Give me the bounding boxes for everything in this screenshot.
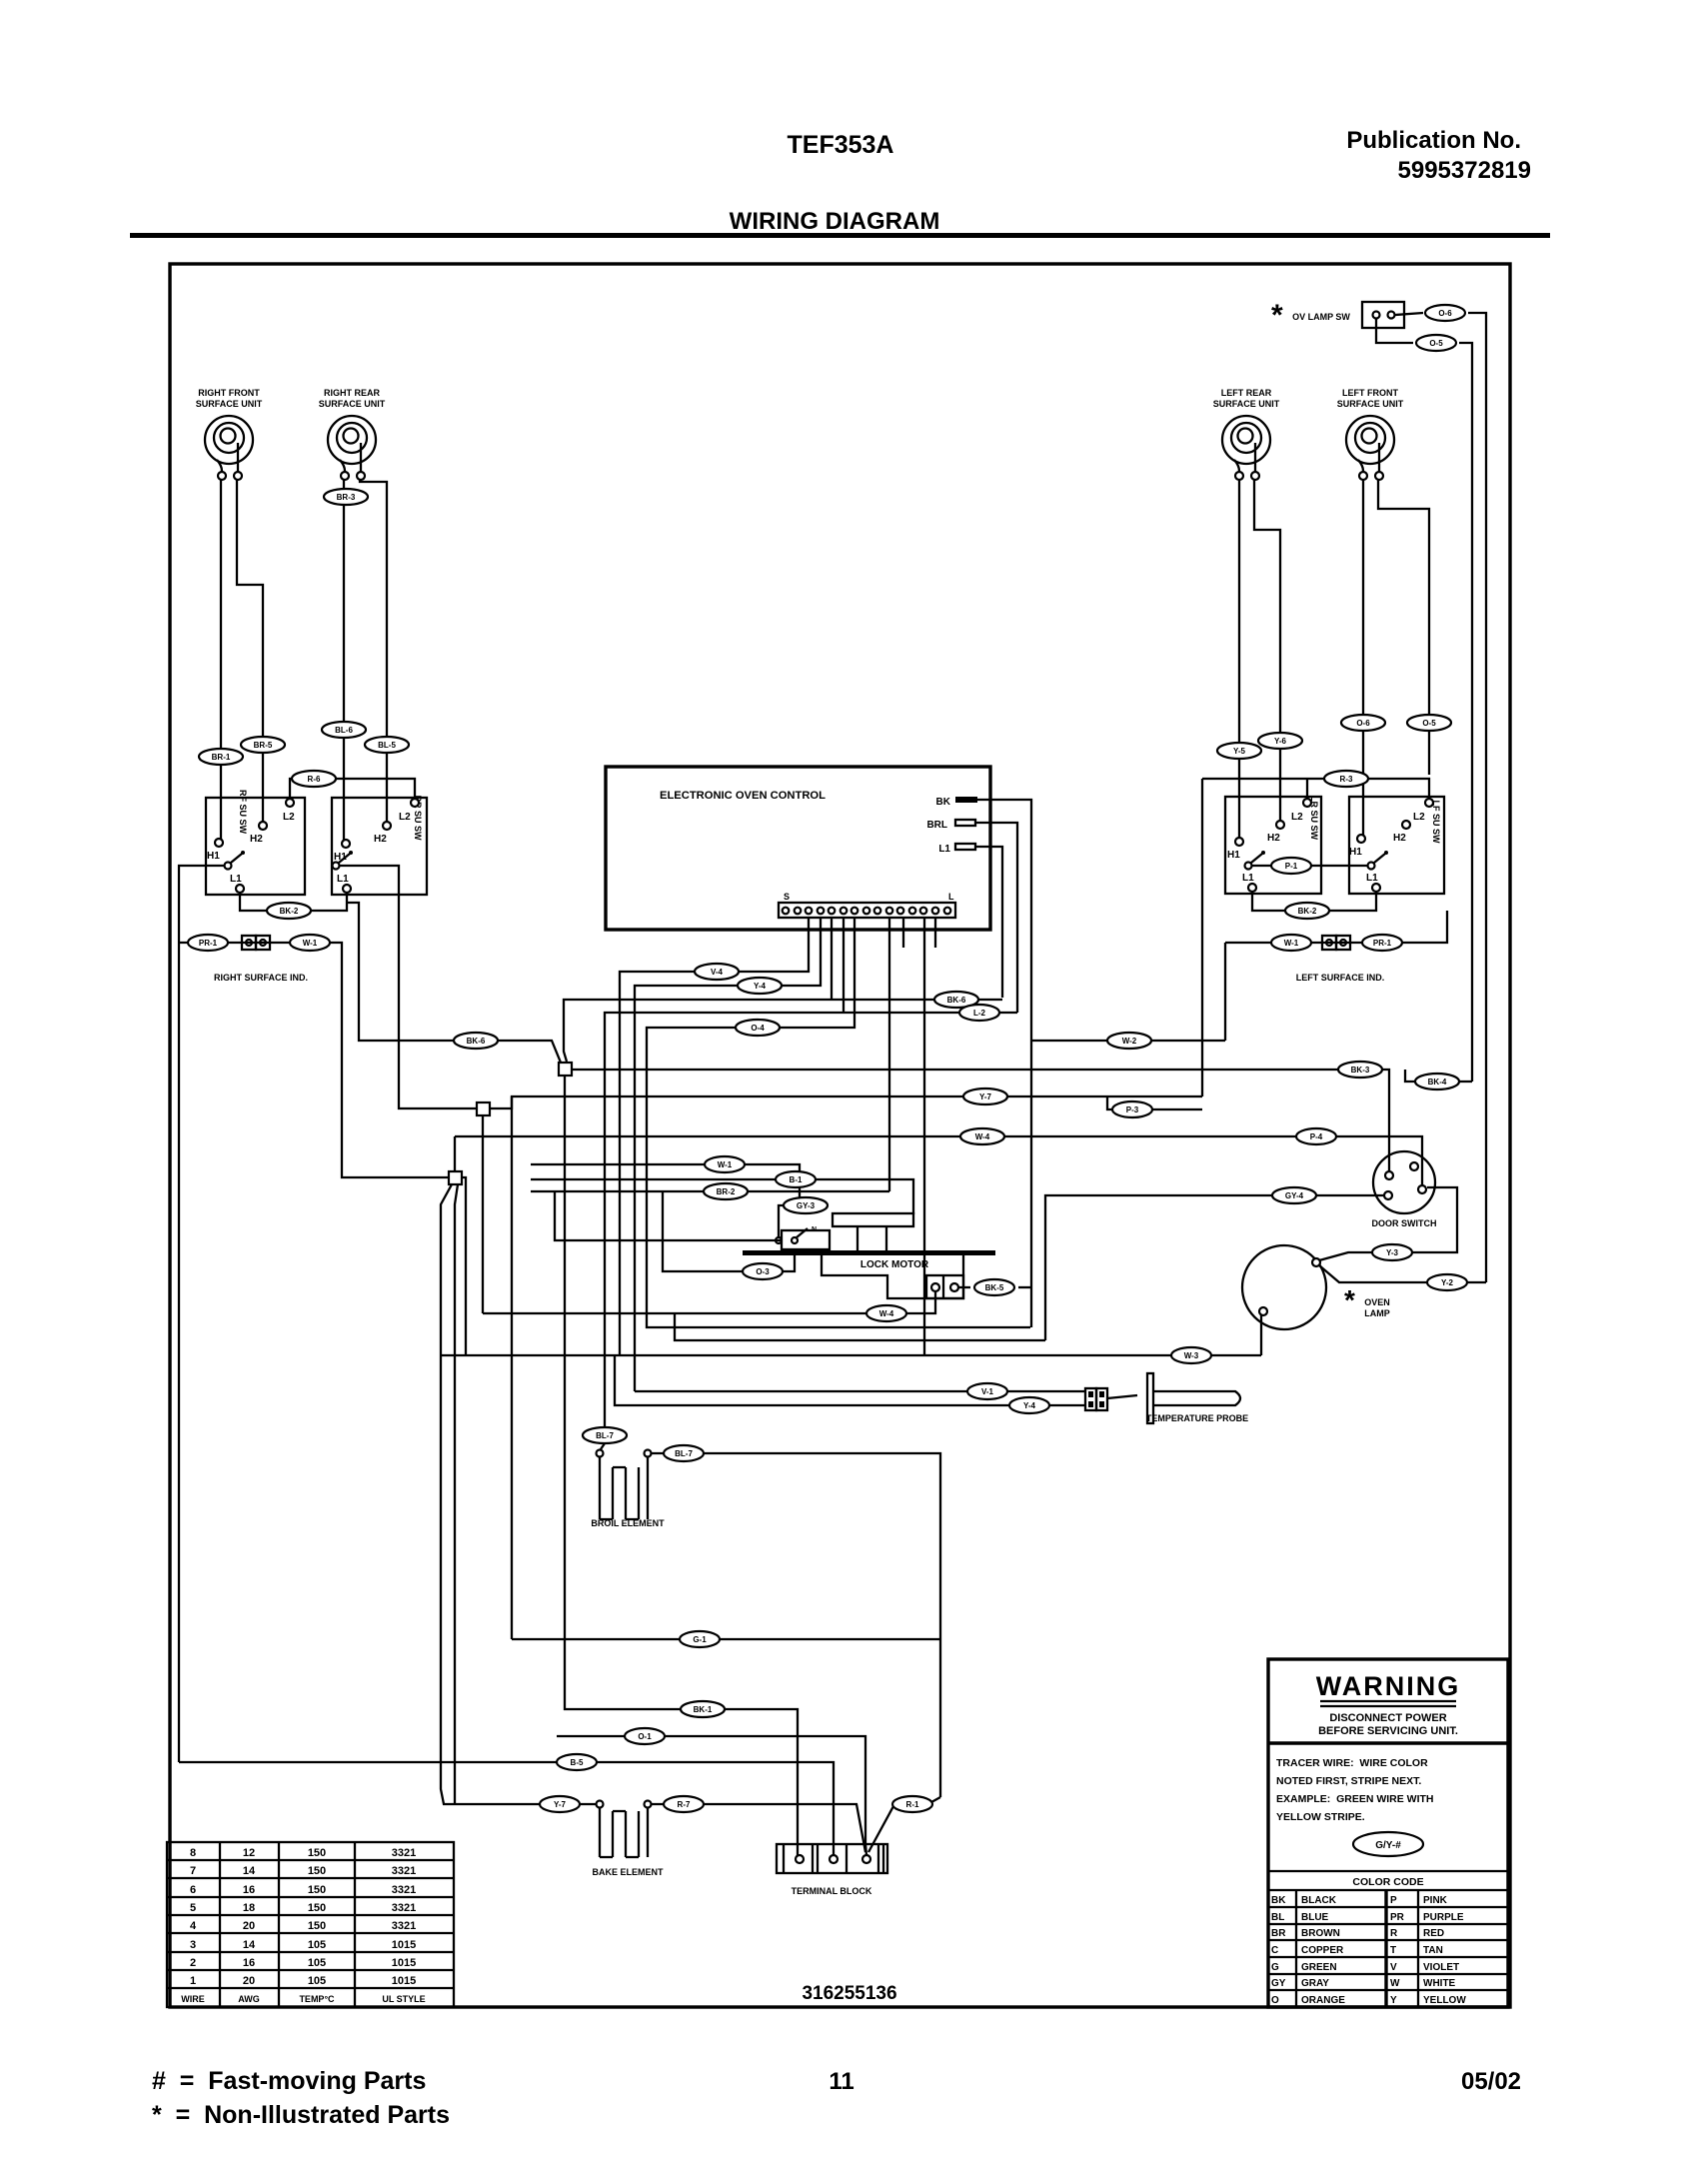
svg-text:Y-7: Y-7 [554,1800,567,1809]
svg-text:W-2: W-2 [1122,1037,1137,1046]
wire LR pivot to LF pivot [1252,865,1368,867]
connector V-4 [695,964,739,980]
surface unit LEFT FRONT (coil heater symbol) [1337,388,1404,480]
svg-text:P-3: P-3 [1126,1105,1139,1114]
wire left L1 link pair [1252,892,1376,911]
svg-text:GY-3: GY-3 [797,1201,816,1210]
switch box LR SU SW [1225,796,1321,894]
color code table [1268,1890,1508,2007]
EOC terminal L1 (spade) [938,844,975,855]
wire EOC BK lead to right column [977,800,1031,1327]
svg-text:316255136: 316255136 [802,1983,896,2004]
svg-text:105: 105 [308,1939,326,1951]
svg-text:BL-6: BL-6 [335,726,353,735]
svg-text:Publication No.: Publication No. [1346,127,1521,154]
svg-text:G-1: G-1 [693,1635,707,1644]
wire gauge table [167,1842,454,2007]
svg-text:BLACK: BLACK [1301,1895,1337,1906]
svg-text:1: 1 [190,1975,196,1987]
svg-text:12: 12 [243,1847,255,1859]
connector W-4b [866,1305,906,1321]
svg-text:W-3: W-3 [1184,1351,1199,1360]
svg-text:OVEN: OVEN [1364,1297,1390,1307]
connector BK-2 [267,903,311,919]
svg-text:RIGHT REAR: RIGHT REAR [324,388,381,398]
svg-text:BL-7: BL-7 [596,1431,614,1440]
EOC terminal BRL (spade) [926,820,975,831]
svg-text:W-1: W-1 [1284,939,1299,948]
svg-text:V-1: V-1 [981,1387,994,1396]
svg-text:L2: L2 [399,812,411,823]
connector BK-1 [681,1701,725,1717]
connector BL-7 [583,1427,627,1443]
svg-text:3321: 3321 [392,1902,416,1914]
svg-text:O-1: O-1 [638,1732,652,1741]
wire R-3 row drop to BK row [1201,779,1203,1096]
svg-text:RIGHT FRONT: RIGHT FRONT [198,388,260,398]
wire strip terminal drop 1 to V-4 row [620,918,809,1355]
connector B-5 [557,1754,597,1770]
svg-text:L1: L1 [1242,873,1254,884]
connector O-5b [1407,715,1451,731]
svg-text:GRAY: GRAY [1301,1978,1329,1989]
temperature probe [1085,1373,1248,1423]
svg-text:BR-3: BR-3 [337,493,356,502]
switch box RR SU SW [332,796,427,896]
svg-text:3321: 3321 [392,1865,416,1877]
svg-text:H2: H2 [1267,833,1280,844]
connector BR-1 [199,749,243,765]
svg-text:3321: 3321 [392,1847,416,1859]
svg-text:8: 8 [190,1847,196,1859]
wire indicator row drop to Y-7 row [1224,943,1226,1041]
wire RR unit H1 lead [343,480,345,840]
svg-text:BK-4: BK-4 [1428,1078,1447,1087]
svg-text:BR-5: BR-5 [254,741,273,750]
lock motor slide bar [743,1250,995,1255]
wire B-1 row to lock motor flag [531,1179,913,1214]
wire lamp sw right pin to connector [1395,313,1423,315]
connector P-3 [1112,1101,1152,1117]
svg-text:R: R [1390,1928,1398,1939]
connector Y-3 [1372,1244,1412,1260]
svg-text:1015: 1015 [392,1957,416,1969]
svg-text:LEFT SURFACE IND.: LEFT SURFACE IND. [1296,973,1385,983]
svg-text:C: C [1271,1945,1278,1956]
svg-text:R-1: R-1 [906,1800,919,1809]
svg-text:BL-5: BL-5 [378,741,396,750]
svg-text:150: 150 [308,1902,326,1914]
svg-text:BL: BL [1271,1912,1284,1923]
svg-text:BK-1: BK-1 [694,1705,713,1714]
lock motor terminal box [926,1275,963,1298]
wire J2 drop to lower route and GY-4 row to door switch left pin [483,1115,1384,1340]
connector Y-4b [1009,1397,1049,1413]
svg-text:W-1: W-1 [718,1160,733,1169]
connector BL-6 [322,722,366,738]
svg-text:1015: 1015 [392,1939,416,1951]
svg-text:BK-6: BK-6 [467,1037,486,1046]
terminal block [777,1844,887,1896]
wire strip stub 8 [902,918,904,948]
svg-text:L1: L1 [938,844,950,855]
svg-text:WHITE: WHITE [1423,1978,1456,1989]
connector BK-4 [1415,1074,1459,1090]
svg-text:LEFT REAR: LEFT REAR [1221,388,1272,398]
wire door switch right pin to oven lamp [1319,1187,1457,1260]
svg-text:O-4: O-4 [751,1024,765,1033]
connector O-6 [1425,305,1465,321]
svg-text:PURPLE: PURPLE [1423,1912,1464,1923]
wire RR switch L1 drop to BK junction line [347,903,561,1063]
wire oven lamp lower pin to long W row [1260,1315,1262,1355]
svg-text:V: V [1390,1962,1397,1973]
wire J3 funnel left leg to bake row [441,1184,455,1804]
svg-text:BK-2: BK-2 [280,907,299,916]
connector W-2 [1107,1033,1151,1049]
connector BL-5 [365,737,409,753]
svg-text:Y-4: Y-4 [754,982,767,991]
wire G-1 feeder drop [511,1096,513,1639]
wire BK-5 to right drop [1018,1286,1031,1288]
svg-text:BK: BK [936,797,951,808]
svg-text:TEMP°C: TEMP°C [299,1994,335,2004]
svg-text:L2: L2 [283,812,295,823]
svg-text:BEFORE SERVICING UNIT.: BEFORE SERVICING UNIT. [1318,1725,1458,1737]
svg-text:Y-3: Y-3 [1386,1248,1399,1257]
svg-text:150: 150 [308,1847,326,1859]
wire jumper R-3 row [1202,779,1429,799]
svg-text:H2: H2 [250,834,263,845]
connector BK-5 [974,1279,1014,1295]
svg-text:BK: BK [1271,1895,1286,1906]
lock switch [782,1230,830,1249]
main border frame [170,264,1510,2007]
svg-text:150: 150 [308,1920,326,1932]
svg-text:3321: 3321 [392,1884,416,1896]
wire RR switch pivot to J2 [339,866,477,1108]
connector O-5 [1416,335,1456,351]
svg-text:S: S [784,892,790,902]
connector BK-6b [934,992,978,1008]
svg-text:BROWN: BROWN [1301,1928,1340,1939]
wire J1 drop to BK-1 row to terminal block pin 1 [565,1076,798,1855]
connector B-1 [776,1171,816,1187]
svg-text:L: L [948,892,954,902]
wire LR L2 stub to R-3 row [1306,779,1308,799]
wire BK row to R-3 drop [1031,1040,1225,1042]
wire lock switch feed row [555,1191,782,1240]
wire LR unit H1 lead [1238,480,1240,838]
wire lock motor terminal 1 loop [483,1291,1045,1340]
wire RF unit H1 lead [220,480,222,839]
svg-text:105: 105 [308,1975,326,1987]
connector R-6 [292,771,336,787]
wire connector to second right drop [1459,343,1472,1082]
connector O-1 [625,1728,665,1744]
wire L1 to L1 link right pair [240,893,347,911]
connector W-4 [960,1128,1004,1144]
svg-text:BR: BR [1271,1928,1286,1939]
svg-text:BK-6: BK-6 [947,996,966,1005]
connector P-4 [1296,1128,1336,1144]
svg-text:YELLOW STRIPE.: YELLOW STRIPE. [1276,1811,1365,1823]
switch box RF SU SW [206,790,305,895]
svg-text:H2: H2 [1393,833,1406,844]
svg-text:G: G [1271,1962,1279,1973]
EOC terminal strip with 15 screw terminals [779,892,955,918]
svg-text:SURFACE UNIT: SURFACE UNIT [1213,399,1280,409]
svg-text:TEMPERATURE PROBE: TEMPERATURE PROBE [1146,1413,1248,1423]
svg-text:H1: H1 [1227,850,1240,861]
wire strip terminal drop 5 to O-4 row [647,918,1030,1327]
EOC terminal BK (spade) [936,797,977,808]
svg-text:BR-1: BR-1 [212,753,231,762]
svg-text:*: * [1344,1284,1355,1315]
connector L-2 [959,1005,999,1021]
svg-text:O-6: O-6 [1438,309,1452,318]
svg-text:G/Y-#: G/Y-# [1375,1840,1401,1851]
svg-text:B-1: B-1 [790,1175,803,1184]
connector GY-3 [784,1197,828,1213]
door switch [1372,1151,1437,1228]
wire RF unit H2 lead [237,480,263,822]
svg-text:O-6: O-6 [1356,719,1370,728]
wire lock motor terminal 2 to BK-5 [958,1286,970,1288]
svg-text:BK-3: BK-3 [1351,1066,1370,1075]
junction node J2 [477,1102,490,1115]
connector O-4 [736,1020,780,1036]
broil element [591,1450,665,1529]
svg-text:4: 4 [190,1920,197,1932]
wire G-1 row [512,1638,940,1640]
wire jumper R-6 between L2 terminals [290,779,415,799]
svg-text:Y-5: Y-5 [1233,747,1246,756]
connector GY-4 [1272,1187,1316,1203]
junction node J3 [449,1171,462,1184]
svg-text:ORANGE: ORANGE [1301,1995,1345,2006]
svg-text:TRACER WIRE: WIRE COLOR: TRACER WIRE: WIRE COLOR [1276,1757,1428,1769]
connector BK-2b [1285,903,1329,919]
svg-text:16: 16 [243,1884,255,1896]
svg-text:PR-1: PR-1 [1373,939,1392,948]
connector BR-2 [704,1183,748,1199]
connector Y-5 [1217,743,1261,759]
wire temperature probe line 2 [615,1355,1085,1405]
svg-text:OV LAMP SW: OV LAMP SW [1292,312,1350,322]
wire J1 output row to door switch top pin [572,1070,1389,1171]
svg-text:105: 105 [308,1957,326,1969]
svg-text:COPPER: COPPER [1301,1945,1344,1956]
svg-text:B-5: B-5 [571,1758,584,1767]
svg-text:W-1: W-1 [303,939,318,948]
connector Y-6 [1258,733,1302,749]
svg-text:R-3: R-3 [1340,775,1353,784]
svg-text:DISCONNECT POWER: DISCONNECT POWER [1329,1712,1446,1724]
wire broil element right lead long drop [652,1453,940,1797]
wire B-5 row from left border to terminal block pin 2 [179,1762,834,1855]
svg-text:TAN: TAN [1423,1945,1443,1956]
svg-text:O-5: O-5 [1429,339,1443,348]
svg-text:Y: Y [1390,1995,1397,2006]
svg-text:* = Non-Illustrated Parts: * = Non-Illustrated Parts [152,2101,450,2129]
svg-text:AWG: AWG [238,1994,260,2004]
wire strip terminal drop 2 to Y-4 row [635,918,821,1391]
svg-text:H1: H1 [1349,847,1362,858]
svg-text:NOTED FIRST, STRIPE NEXT.: NOTED FIRST, STRIPE NEXT. [1276,1775,1421,1787]
svg-text:P-1: P-1 [1285,862,1298,871]
connector BL-7b [664,1445,704,1461]
switch box LF SU SW [1349,797,1444,894]
wire LR unit H2 lead [1254,480,1280,821]
surface unit RIGHT FRONT (coil heater symbol) [196,388,263,480]
svg-text:R-7: R-7 [678,1800,691,1809]
warning box [1268,1659,1508,2007]
svg-text:L2: L2 [1413,812,1425,823]
connector Y-7b [540,1796,580,1812]
svg-text:R-6: R-6 [308,775,321,784]
connector W-3 [1171,1347,1211,1363]
svg-text:Y-2: Y-2 [1441,1278,1454,1287]
svg-text:SURFACE UNIT: SURFACE UNIT [319,399,386,409]
svg-text:O-3: O-3 [756,1267,770,1276]
connector R-7 [664,1796,704,1812]
svg-text:TERMINAL BLOCK: TERMINAL BLOCK [792,1886,872,1896]
wire RR unit H2 lead [360,480,387,822]
svg-text:14: 14 [243,1865,256,1877]
indicator lamp RIGHT SURFACE IND [214,936,308,983]
svg-text:EXAMPLE: GREEN WIRE WITH: EXAMPLE: GREEN WIRE WITH [1276,1793,1434,1805]
svg-text:*: * [1271,299,1283,332]
wire bake element right lead row [652,1804,865,1852]
svg-text:Y-4: Y-4 [1023,1401,1036,1410]
lock motor body [822,1255,963,1298]
svg-text:1015: 1015 [392,1975,416,1987]
wire right surface indicator row [179,943,449,1177]
connector BR-5 [241,737,285,753]
svg-text:20: 20 [243,1920,255,1932]
svg-text:RIGHT SURFACE IND.: RIGHT SURFACE IND. [214,973,308,983]
svg-text:COLOR CODE: COLOR CODE [1352,1876,1423,1888]
wire P-4 row J3 to door switch right pin [455,1136,1422,1185]
svg-text:RED: RED [1423,1928,1444,1939]
svg-text:PINK: PINK [1423,1895,1448,1906]
svg-text:18: 18 [243,1902,255,1914]
svg-text:L2: L2 [1291,812,1303,823]
svg-text:6: 6 [190,1884,196,1896]
wire EOC BRL lead down [975,823,1017,1013]
wire EOC L1 lead down [975,847,1002,998]
surface unit LEFT REAR (coil heater symbol) [1213,388,1280,480]
svg-text:H1: H1 [207,851,220,862]
svg-text:16: 16 [243,1957,255,1969]
svg-text:UL STYLE: UL STYLE [382,1994,425,2004]
connector R-3 [1324,771,1368,787]
svg-text:11: 11 [829,2068,854,2095]
wire LF unit H1 lead [1362,480,1364,835]
svg-text:W-4: W-4 [975,1132,990,1141]
connector BK-6 [454,1033,498,1049]
svg-text:3: 3 [190,1939,196,1951]
svg-text:L1: L1 [230,874,242,885]
svg-text:BLUE: BLUE [1301,1912,1329,1923]
wire W-1 row to lock switch [531,1164,828,1237]
svg-text:BK-2: BK-2 [1298,907,1317,916]
connector R-1 [868,1797,940,1852]
svg-text:YELLOW: YELLOW [1423,1995,1466,2006]
svg-text:5995372819: 5995372819 [1398,157,1531,184]
svg-text:O: O [1271,1995,1279,2006]
wire Y-7 long row [491,1096,1202,1108]
svg-text:150: 150 [308,1884,326,1896]
surface unit RIGHT REAR (coil heater symbol) [319,388,386,480]
connector example G/Y-# [1353,1832,1423,1856]
wire strip stub 9 [934,918,936,948]
svg-text:GY-4: GY-4 [1285,1191,1304,1200]
svg-text:DOOR SWITCH: DOOR SWITCH [1372,1218,1437,1228]
wire BK-4 branch to right column [1405,1070,1472,1082]
connector Y-2 [1427,1274,1467,1290]
svg-text:3321: 3321 [392,1920,416,1932]
oven lamp (non-illustrated) [1242,1245,1390,1329]
wire RF switch pivot to left border drop [179,866,225,1762]
svg-text:W: W [1390,1978,1400,1989]
svg-text:LF SU SW: LF SU SW [1431,801,1441,845]
connector PR-1 [188,935,228,951]
svg-text:Y-6: Y-6 [1274,737,1287,746]
svg-text:PR-1: PR-1 [199,939,218,948]
svg-text:RF SU SW: RF SU SW [238,790,248,835]
svg-text:05/02: 05/02 [1461,2068,1521,2095]
svg-text:BR-2: BR-2 [717,1187,736,1196]
wire strip terminal drop 3 to BK-6 row [564,918,1002,1062]
svg-text:P: P [1390,1895,1397,1906]
svg-text:ELECTRONIC OVEN CONTROL: ELECTRONIC OVEN CONTROL [660,790,826,802]
connector BK-3 [1338,1062,1382,1078]
svg-text:PR: PR [1390,1912,1405,1923]
svg-text:L1: L1 [337,874,349,885]
svg-text:Y-7: Y-7 [979,1092,992,1101]
svg-text:SURFACE UNIT: SURFACE UNIT [196,399,263,409]
svg-text:5: 5 [190,1902,196,1914]
wire strip terminal drop 6 [888,918,890,1191]
connector O-3 [743,1263,783,1279]
svg-text:P-4: P-4 [1310,1132,1323,1141]
svg-text:TEF353A: TEF353A [788,131,894,159]
svg-text:GY: GY [1271,1978,1286,1989]
wire temperature probe line 1 [635,1390,1085,1392]
connector BR-3 [324,489,368,505]
lock motor assembly [743,1213,995,1298]
svg-text:LOCK MOTOR: LOCK MOTOR [860,1259,929,1270]
connector W-1b [1271,935,1311,951]
horizontal rule [130,233,1550,238]
svg-text:T: T [1390,1945,1396,1956]
connector PR-1b [1362,935,1402,951]
svg-text:LEFT FRONT: LEFT FRONT [1342,388,1398,398]
svg-text:V-4: V-4 [711,968,724,977]
svg-text:BAKE ELEMENT: BAKE ELEMENT [592,1867,664,1877]
svg-text:# = Fast-moving Parts: # = Fast-moving Parts [152,2067,426,2095]
indicator lamp LEFT SURFACE IND [1296,936,1385,983]
svg-text:BK-5: BK-5 [985,1283,1004,1292]
wire connector to right drop [1468,313,1486,1282]
connector W-1 [290,935,330,951]
lock motor flag plate [833,1213,913,1226]
connector Y-4 [738,978,782,994]
wire O-1 row to terminal block pin 3 [557,1736,866,1855]
svg-text:7: 7 [190,1865,196,1877]
